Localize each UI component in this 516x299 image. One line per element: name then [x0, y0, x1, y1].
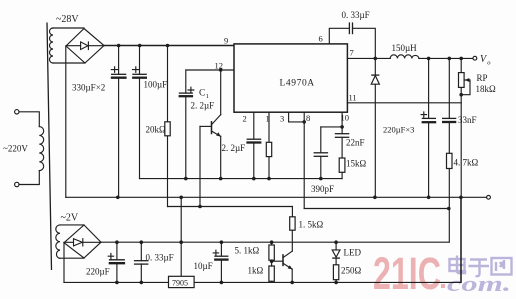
capacitor C1 2.2uF: [185, 70, 187, 179]
svg-text:220µF×3: 220µF×3: [383, 125, 414, 135]
svg-text:~28V: ~28V: [56, 14, 79, 25]
wire: [53, 27, 84, 29]
node 100uF top: [138, 44, 142, 48]
diode D1 catch: [374, 58, 376, 197]
regulator 7905: [180, 197, 182, 276]
capacitor 100uF: [139, 46, 141, 179]
terminal 220V top: [15, 110, 19, 114]
capacitor 330uF x2: [118, 46, 120, 198]
svg-text:2: 2: [243, 114, 247, 124]
svg-text:330µF×2: 330µF×2: [72, 83, 105, 93]
svg-text:10µF: 10µF: [194, 261, 213, 271]
svg-text:8: 8: [306, 113, 310, 123]
svg-text:~2V: ~2V: [61, 213, 79, 224]
pin 1 resistor: [268, 112, 270, 178]
watermark 21IC: [373, 248, 445, 299]
pin 2 cap 2.2uF: [253, 112, 255, 178]
svg-text:C: C: [199, 89, 205, 99]
rail B signal ground: [140, 178, 343, 180]
capacitor 10uF: [220, 242, 222, 282]
svg-text:0. 33µF: 0. 33µF: [342, 10, 370, 20]
resistor 1k: [269, 266, 274, 281]
wire: [53, 62, 85, 64]
svg-text:L4970A: L4970A: [280, 79, 315, 89]
pin 8 wire: [303, 112, 305, 208]
svg-text:~220V: ~220V: [3, 144, 28, 154]
resistor 4.7k: [447, 153, 453, 168]
svg-text:2. 2µF: 2. 2µF: [191, 101, 215, 111]
svg-text:250Ω: 250Ω: [341, 266, 362, 276]
pin 7 output rail: [347, 57, 472, 59]
transistor Q2: [282, 255, 284, 266]
svg-text:10: 10: [341, 113, 350, 123]
wire bridge2 negative: [63, 243, 65, 283]
secondary winding ~2V: [56, 225, 60, 258]
svg-text:3: 3: [280, 114, 284, 124]
watermark 电子网: [450, 256, 512, 277]
resistor 250: [333, 265, 338, 280]
svg-text:2. 2µF: 2. 2µF: [222, 143, 246, 153]
resistor 1.5k: [291, 207, 293, 217]
wire: [19, 171, 39, 185]
rail A power ground: [66, 196, 487, 198]
inductor 150uH: [390, 55, 419, 59]
terminal output return: [487, 195, 491, 199]
svg-text:20kΩ: 20kΩ: [146, 125, 167, 135]
svg-text:RP: RP: [477, 73, 488, 83]
resistor 5.1k: [271, 242, 273, 245]
node diode top: [374, 57, 378, 61]
svg-text:5. 1kΩ: 5. 1kΩ: [235, 246, 260, 256]
resistor 20k: [167, 46, 169, 207]
svg-text:1: 1: [266, 114, 270, 124]
svg-text:9: 9: [224, 36, 228, 46]
pin 10 wire: [341, 112, 343, 133]
bridge rectifier B2: [64, 225, 101, 258]
node 220uFx3 top: [427, 57, 431, 61]
feedback line pin8: [304, 208, 449, 210]
capacitor 220uF x3: [428, 58, 430, 197]
terminal 220V bottom: [15, 182, 19, 186]
potentiometer RP 18k: [460, 58, 462, 282]
pin 6 wire and 0.33uF cap: [329, 28, 375, 58]
terminal Vo: [473, 56, 477, 60]
capacitor 33nF: [448, 58, 450, 153]
node RP top: [459, 57, 463, 61]
svg-text:150µH: 150µH: [392, 43, 418, 53]
svg-text:LED: LED: [344, 248, 362, 258]
resistor 15k: [339, 158, 345, 172]
wire rail F to rail A: [460, 197, 462, 282]
svg-text:22nF: 22nF: [346, 138, 365, 148]
LED: [335, 242, 337, 265]
pin 11 feedback wire: [347, 102, 461, 104]
wire Q1 base: [199, 126, 201, 206]
svg-text:com.: com.: [447, 271, 511, 296]
secondary winding ~28V: [50, 28, 54, 63]
svg-text:390pF: 390pF: [311, 184, 334, 194]
IC L4970A U1: [234, 44, 347, 112]
rail C base node: [168, 206, 293, 208]
wire to 390pF: [321, 126, 342, 128]
svg-text:1kΩ: 1kΩ: [248, 266, 264, 276]
svg-text:4. 7kΩ: 4. 7kΩ: [454, 158, 479, 168]
svg-text:15kΩ: 15kΩ: [346, 159, 367, 169]
rail E minus supply gnd: [101, 241, 449, 243]
node collector: [219, 68, 223, 72]
primary winding ~220V: [39, 127, 43, 171]
transformer core: [47, 23, 52, 271]
wire bridge1 negative: [65, 46, 67, 197]
svg-text:18kΩ: 18kΩ: [476, 84, 497, 94]
svg-text:11: 11: [349, 93, 357, 103]
svg-text:220µF: 220µF: [86, 267, 110, 277]
node 33nF top: [448, 57, 452, 61]
rail F minus supply: [64, 281, 461, 283]
wire pin12: [186, 69, 234, 71]
svg-text:1. 5kΩ: 1. 5kΩ: [299, 220, 324, 230]
svg-text:100µF: 100µF: [144, 80, 168, 90]
pin 3 wire: [289, 112, 305, 122]
svg-text:6: 6: [319, 34, 323, 44]
wire: [19, 112, 39, 127]
capacitor 220uF bottom: [116, 242, 118, 282]
node 20k top: [166, 44, 170, 48]
bridge rectifier B1: [66, 29, 104, 64]
svg-text:1: 1: [206, 93, 209, 100]
transistor Q1: [211, 122, 213, 134]
svg-text:21IC: 21IC: [373, 248, 441, 299]
node 330uF top: [117, 44, 121, 48]
wire +28V top rail: [104, 45, 234, 47]
svg-text:7: 7: [350, 48, 354, 58]
svg-text:7905: 7905: [172, 279, 188, 288]
capacitor 0.33uF bottom: [140, 242, 142, 282]
capacitor 22nF: [335, 133, 350, 135]
capacitor 390pF: [320, 127, 322, 179]
svg-text:0. 33µF: 0. 33µF: [146, 253, 174, 263]
